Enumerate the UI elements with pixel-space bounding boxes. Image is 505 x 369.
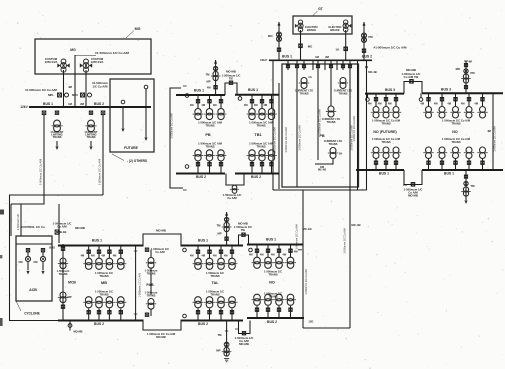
note segB cable a: [206, 271, 224, 275]
note pab t2 b: [147, 293, 156, 297]
note bc cable a: [234, 225, 252, 229]
svg-text:NO (FUTURE): NO (FUTURE): [373, 130, 397, 134]
label BUS 2 (top-left): [94, 102, 104, 106]
note bcb cable c: [239, 342, 249, 346]
cable tag A1: [39, 159, 43, 185]
breaker 52-P1: [286, 65, 289, 68]
svg-text:4M: 4M: [420, 102, 424, 106]
pt segC tl: [249, 248, 253, 252]
pt segB bl: [183, 314, 187, 318]
source arrow left riser: [277, 22, 280, 26]
breaker 52-3L3: [394, 98, 397, 101]
leader to MG label: [126, 31, 134, 39]
svg-text:MP: MP: [217, 232, 221, 236]
svg-text:CYCLONE: CYCLONE: [24, 312, 40, 316]
label MO-MB tie3: [406, 68, 416, 72]
feeder wire C1: [256, 245, 258, 258]
boundary wire right of right subsystem: [492, 93, 494, 170]
label CM acb2: [33, 260, 38, 264]
svg-text:1-500mcm 1/C Cu A/M: 1-500mcm 1/C Cu A/M: [319, 109, 322, 134]
enclosure GT generator: [293, 16, 352, 34]
note 1L cable b: [381, 140, 390, 144]
note ML2 cable b: [205, 144, 214, 148]
tie jumper M top: [225, 83, 237, 95]
flow arrow riser: [365, 66, 368, 70]
note pab t1 b: [147, 271, 156, 275]
label 12kV main: [260, 58, 267, 62]
breaker 52-3R3: [454, 98, 457, 101]
svg-text:4M: 4M: [378, 102, 382, 106]
note segC2 cable a: [264, 292, 282, 296]
label 4M MR3: [263, 103, 267, 107]
cable tag MC-1B b: [285, 127, 288, 152]
feeder wire M2L3: [220, 161, 222, 174]
bus BUS2 segment A: [58, 320, 144, 322]
feeder wire B2-2: [209, 309, 211, 321]
load arrow F2: [144, 137, 147, 141]
bus BUS2 M-left: [176, 173, 225, 175]
feeder wire C2: [267, 245, 269, 258]
note pab t1 a: [145, 269, 158, 273]
svg-text:BUS 1: BUS 1: [282, 55, 292, 59]
generator G2: [343, 20, 351, 32]
breaker 52-C4: [289, 249, 292, 252]
transformer T-3L3: [391, 107, 401, 119]
svg-text:BUS 1: BUS 1: [194, 89, 204, 93]
transformer T-1R3: [450, 147, 460, 159]
transformer TR-R: [362, 33, 367, 43]
transformer T-PAB2: [146, 299, 156, 310]
transformer T-P4: [328, 148, 338, 159]
wire left riser: [278, 22, 280, 60]
feeder MC-1B down: [302, 190, 304, 328]
cable tag MC-1B: [273, 127, 276, 152]
ct TM1 x-mark: [465, 182, 468, 185]
feeder wire C2-1: [256, 306, 258, 318]
riser chain ACB to BUS2: [62, 244, 64, 321]
label 1M: [48, 93, 54, 97]
note segC cable b: [268, 272, 277, 276]
label FUTURE: [124, 146, 138, 150]
breaker 52-B3: [219, 250, 222, 253]
bus BUS1 bottom-left segment: [356, 169, 404, 171]
pt M-R1: [238, 97, 242, 101]
feeder wire A2-2: [98, 309, 100, 321]
wire bus drop 7: [330, 60, 332, 70]
label 4M rs right: [487, 129, 491, 133]
svg-text:1250 KVA: 1250 KVA: [45, 60, 58, 64]
feeder drop inside PDC: [317, 70, 319, 160]
label 12kV left end: [20, 105, 28, 109]
pt P-3R: [419, 98, 423, 102]
svg-text:1-500mcm 1/C Cu A/M: 1-500mcm 1/C Cu A/M: [296, 224, 299, 249]
svg-text:4M: 4M: [388, 102, 392, 106]
wire T-P4 tail: [315, 159, 333, 165]
svg-text:TAL: TAL: [211, 281, 219, 285]
cable note right drop a: [92, 81, 108, 85]
breaker 52-P5: [316, 65, 319, 68]
label GT callout: [318, 7, 324, 11]
feeder wire 1R4: [468, 159, 470, 171]
breaker 52-C2-3: [277, 308, 280, 311]
label BUS 2 segC: [267, 320, 277, 324]
load arrow ACB-1: [26, 271, 29, 275]
wire aux drop below bus2A: [69, 321, 71, 331]
note 1R cable a: [442, 137, 471, 141]
cable tag rs-right: [494, 126, 497, 151]
transformer T-ML1: [193, 109, 204, 120]
boundary wire M right: [278, 83, 280, 189]
svg-text:MP: MP: [67, 295, 71, 299]
svg-text:BUS 1: BUS 1: [43, 102, 53, 106]
svg-text:MO-MB: MO-MB: [156, 335, 165, 339]
svg-text:TRANS: TRANS: [205, 144, 214, 148]
svg-text:1-500mcm 1/C Cu A/M: 1-500mcm 1/C Cu A/M: [344, 228, 347, 253]
feeder wire M2R3: [271, 161, 273, 174]
svg-text:BUS 1: BUS 1: [444, 172, 454, 176]
feeder wire C2-4: [290, 306, 292, 318]
transformer T-C2: [263, 257, 274, 268]
transformer T-B2-2: [204, 297, 215, 308]
svg-text:1-500mcm 1/C Cu A/M: 1-500mcm 1/C Cu A/M: [353, 116, 356, 141]
label PB: [205, 133, 211, 137]
transformer T-M2L1: [193, 150, 204, 161]
feeder wire 3R4: [468, 93, 470, 106]
breaker 52-B4: [230, 250, 233, 253]
label BUS 1 br-right: [444, 172, 454, 176]
transformer T-M2R1: [247, 150, 258, 161]
transformer T-M2R3: [266, 150, 277, 161]
label BUS 1 segA: [92, 239, 102, 243]
label MC-1B: [302, 227, 311, 231]
breaker 52-1R4: [467, 161, 470, 164]
wire ACB-1 load2: [27, 262, 29, 270]
svg-text:4M: 4M: [213, 103, 217, 107]
breaker 52-B2-4: [230, 311, 233, 314]
svg-text:1-500mcm 1/C Cu A/M: 1-500mcm 1/C Cu A/M: [39, 159, 43, 185]
svg-text:4M: 4M: [190, 254, 194, 258]
note tie-m cable: [222, 74, 241, 78]
svg-text:4M: 4M: [213, 254, 217, 258]
svg-text:12kV: 12kV: [20, 105, 28, 109]
breaker 52-1L2: [384, 161, 387, 164]
transformer TM-B: [222, 222, 232, 231]
transformer T-B3: [216, 258, 227, 269]
cable note right of riser: [374, 46, 407, 50]
tick M boundary bottom: [183, 189, 187, 191]
wire PAB chain top: [150, 250, 152, 257]
feeder wire ML2: [209, 95, 211, 109]
note pab cable top a: [151, 247, 169, 251]
svg-text:BUS 3: BUS 3: [441, 88, 451, 92]
svg-text:MO-MB: MO-MB: [408, 194, 418, 198]
wire G2 to bus: [345, 30, 347, 60]
feeder wire 3R2: [441, 93, 443, 106]
label 4M MR2: [254, 103, 258, 107]
svg-text:1-500mcm 1/C Cu A/M: 1-500mcm 1/C Cu A/M: [494, 126, 497, 151]
bus BUS2 segment B: [181, 320, 244, 322]
cable tag pab leg: [139, 273, 142, 297]
label BUS 3 right: [441, 88, 451, 92]
svg-text:MPX: MPX: [72, 93, 78, 97]
svg-text:12kV: 12kV: [260, 58, 267, 62]
breaker 52-C2-2: [266, 308, 269, 311]
transformer T-M2L2: [204, 150, 215, 161]
label PB: [319, 134, 325, 138]
note segA cable a: [95, 271, 113, 275]
transformer T-1L1: [371, 147, 381, 159]
svg-text:1-500mcm 1/C Cu A/M: 1-500mcm 1/C Cu A/M: [139, 273, 142, 297]
wire ACB-2 load2: [42, 262, 44, 270]
wire T-A2 load: [56, 141, 58, 146]
ct segB riser: [224, 217, 228, 221]
svg-text:1/C Cu A/M: 1/C Cu A/M: [92, 85, 108, 89]
enclosure PDC: [282, 64, 359, 187]
feeder wire A1 down: [43, 115, 45, 195]
breaker 52-B2-3: [219, 311, 222, 314]
svg-text:#1-500mcm 1/C Cu A/M: #1-500mcm 1/C Cu A/M: [374, 46, 407, 50]
label T-A3 line2: [85, 133, 96, 137]
breaker 52-A1: [42, 111, 46, 115]
note tie1 cable a: [404, 188, 423, 192]
label CA bc: [235, 327, 239, 331]
wire pt 3R: [420, 93, 422, 97]
breaker TIE-BC top: [242, 233, 245, 236]
svg-text:MO: MO: [268, 34, 273, 38]
terminal tick TM3: [464, 60, 468, 62]
label BUS 1 segC: [266, 238, 276, 242]
label 1M on bus: [68, 102, 72, 106]
riser main to BUS3: [366, 60, 368, 190]
label T-P3 b: [327, 120, 336, 124]
svg-text:BUS 1: BUS 1: [92, 239, 102, 243]
feeder wire 3L3: [395, 94, 397, 106]
feeder wire A2-1: [88, 309, 90, 321]
svg-text:MO: MO: [456, 67, 460, 71]
label MB-1B: [58, 230, 67, 234]
label T-A3 line3: [87, 135, 96, 139]
breaker TM3 bottom: [464, 86, 467, 89]
svg-text:CA: CA: [403, 183, 407, 187]
svg-text:BUS 1: BUS 1: [248, 88, 258, 92]
svg-text:CA: CA: [235, 327, 239, 331]
breaker chain-1: [61, 247, 64, 250]
breaker 52-A2-4: [119, 311, 122, 314]
svg-text:TRANS: TRANS: [53, 135, 62, 139]
svg-text:4M: 4M: [263, 103, 267, 107]
feeder wire 1L3: [395, 159, 397, 171]
note segB2 cable a: [206, 290, 224, 294]
feeder wire M2L1: [197, 161, 199, 174]
svg-text:BUS 2: BUS 2: [94, 322, 104, 326]
label MG inside: [70, 48, 76, 52]
transformer T-A2: [51, 120, 62, 132]
breaker 52-1L3: [394, 161, 397, 164]
note mt cable a: [223, 193, 242, 197]
feeder wire A1: [88, 246, 90, 259]
svg-text:#1-500mcm 1/C Cu A/M: #1-500mcm 1/C Cu A/M: [95, 51, 129, 55]
feeder wire M2L2: [209, 161, 211, 174]
label segC corner: [309, 320, 314, 324]
svg-text:- (2) OTHERS: - (2) OTHERS: [127, 159, 147, 163]
wire G1 to bus: [300, 30, 302, 60]
cable note in MG box: [95, 51, 129, 55]
wire future feeder 2: [145, 89, 147, 107]
breaker ACB-1: [26, 249, 29, 252]
transformer T-C1: [252, 257, 263, 268]
label T-P4 a: [324, 139, 342, 143]
svg-text:MO-MB: MO-MB: [75, 226, 85, 230]
transformer T-1R4: [464, 147, 474, 159]
label ACB: [29, 288, 37, 292]
source arrow right riser: [362, 22, 365, 26]
breaker 52-MR1: [250, 100, 253, 103]
wire future feeder 1: [122, 107, 124, 128]
transformer T-A2-2: [94, 297, 105, 308]
svg-text:MB: MB: [101, 281, 107, 285]
transformer T-M2L3: [216, 150, 227, 161]
svg-text:TRANS: TRANS: [381, 140, 390, 144]
breaker 52-C1: [255, 249, 258, 252]
breaker 52-A2-1: [87, 311, 90, 314]
wire PDC lower tie: [273, 189, 367, 191]
label T-A2 line3: [53, 135, 62, 139]
breaker 52-A3: [108, 250, 111, 253]
breaker 52-B2-2: [208, 311, 211, 314]
svg-text:4M: 4M: [244, 103, 248, 107]
enclosure MG switchgear: [35, 39, 151, 74]
svg-text:12G: 12G: [309, 320, 314, 324]
label G1 brake b: [307, 28, 316, 32]
motor-generator MG2: [80, 59, 92, 72]
svg-text:TRANS: TRANS: [256, 123, 265, 127]
breaker 52-P10: [348, 65, 351, 68]
breaker TIE-M: [229, 81, 232, 84]
tick segC tr: [298, 249, 302, 251]
svg-text:Cu A/M: Cu A/M: [57, 225, 67, 229]
label BUS 1 br-left: [379, 172, 389, 176]
svg-text:4M: 4M: [461, 102, 465, 106]
label (2) OTHERS: [127, 159, 147, 163]
svg-text:MO-MB: MO-MB: [238, 222, 248, 226]
svg-text:4M: 4M: [68, 85, 72, 89]
label GM: [320, 165, 324, 169]
feeder wire MR1: [251, 95, 253, 109]
feeder wire 1L2: [385, 159, 387, 171]
svg-text:TRANS: TRANS: [99, 292, 108, 296]
breaker PAB bottom: [145, 313, 148, 316]
tie jumper A-B top: [143, 234, 181, 246]
note pab cable bot b: [156, 335, 165, 339]
note tie-m cable b: [229, 77, 233, 81]
cable tag segC boundary: [305, 269, 308, 294]
svg-text:TRANS: TRANS: [87, 135, 96, 139]
breaker 52-C3: [277, 249, 280, 252]
svg-text:BUS 1: BUS 1: [266, 238, 276, 242]
transformer T-P2: [338, 78, 348, 89]
svg-text:1-500mcm 1/C Cu A/M: 1-500mcm 1/C Cu A/M: [170, 113, 173, 138]
tick segA riser top: [134, 250, 138, 252]
label TM segB: [216, 224, 221, 228]
svg-text:MO-MB: MO-MB: [239, 342, 249, 346]
feeder wire C3: [278, 245, 280, 258]
note pab cable bot a: [147, 332, 176, 336]
wire future feeder 2 load: [145, 107, 147, 137]
ct ACB-1 circle: [25, 256, 30, 261]
wire T-P3 top: [330, 70, 332, 106]
note ch1 cable a: [57, 269, 70, 273]
svg-text:TRANS: TRANS: [268, 272, 277, 276]
ct TM1: [464, 181, 468, 185]
wire ACB-1 load: [27, 252, 29, 256]
breaker segB riser: [225, 237, 228, 240]
cable tag PDC v1: [299, 125, 302, 150]
transformer T-3R2: [437, 107, 447, 119]
cable note left of MG drops: [25, 88, 57, 92]
transformer T-3L1: [371, 107, 381, 119]
feeder wire B2-4: [231, 309, 233, 321]
label MO-MB bc: [238, 222, 248, 226]
label CA tie1: [403, 183, 407, 187]
breaker 52-A2-3: [108, 311, 111, 314]
svg-text:MPL: MPL: [48, 93, 54, 97]
label T-P3 a: [322, 117, 340, 121]
label TM3: [470, 71, 475, 75]
cable note right drop b: [92, 85, 108, 89]
note segA cable b: [99, 274, 108, 278]
svg-text:TM: TM: [205, 73, 210, 77]
source arrow segB: [225, 212, 228, 216]
bus BUS1 segment C: [247, 244, 304, 246]
transformer T-M2R2: [257, 150, 268, 161]
transformer TM-M: [211, 71, 221, 80]
label 4M 3L3: [388, 102, 392, 106]
feeder MC-1B from main bus: [272, 60, 274, 190]
cable tag left run: [17, 214, 20, 231]
feeder wire A2-4: [120, 309, 122, 321]
transformer T-B2-4: [227, 297, 238, 308]
ct segB riser x: [225, 218, 228, 221]
breaker 52-M2R1: [250, 163, 253, 166]
breaker TM3 top: [464, 64, 467, 67]
svg-text:TRANS: TRANS: [451, 140, 460, 144]
svg-text:BUS: BUS: [49, 246, 55, 250]
transformer T-A4: [115, 258, 126, 269]
ct M riser x-mark: [214, 67, 217, 70]
svg-text:1G: 1G: [308, 75, 311, 79]
svg-text:BUS 2: BUS 2: [362, 55, 372, 59]
load arrow F1: [121, 128, 124, 132]
leader to CYCLONE: [16, 301, 21, 311]
transformer T-ML3: [216, 109, 227, 120]
transformer T-1L2: [381, 147, 391, 159]
label MB segA: [101, 281, 107, 285]
generator G1: [295, 20, 303, 32]
label MG1 rating: [45, 57, 58, 61]
transformer T-B2-3: [216, 297, 227, 308]
feeder wire 3R3: [455, 93, 457, 106]
bus BUS1 segment B: [181, 245, 244, 247]
note tie3 cable a: [402, 72, 421, 76]
feeder wire A2: [98, 246, 100, 259]
transformer T-ML2: [204, 109, 215, 120]
label T-A2 line1: [51, 130, 64, 134]
breaker 52-C2-4: [289, 308, 292, 311]
label MP segB2: [216, 349, 220, 353]
label MP segB: [217, 232, 221, 236]
bus BUS1 M-right: [235, 94, 279, 96]
note 3R cable b: [451, 122, 460, 126]
